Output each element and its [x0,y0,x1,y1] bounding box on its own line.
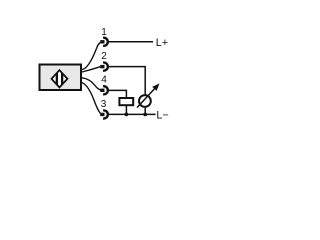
wire load bottom to L- line [125,106,127,115]
svg-text:1: 1 [101,27,107,38]
connector pin 2 [100,63,108,71]
wire lead to pin 4 [82,78,100,90]
meter circle [139,95,151,107]
wire pin1 to L+ [108,41,153,43]
junction dot below meter [143,113,147,117]
junction dot below load [125,113,129,117]
wire pin3 to L- [108,113,156,115]
svg-text:3: 3 [101,99,107,110]
sensor body [40,65,82,91]
connector pin 3 [100,110,108,118]
wire lead to pin 1 [82,43,100,70]
svg-text:L+: L+ [156,37,168,49]
wire lead to pin 2 [82,67,100,72]
wire meter bottom to L- line [144,108,146,115]
wire lead to pin 3 [82,83,100,114]
wire pin4 right then down to load [108,90,126,97]
adjustment arrow head [152,83,159,91]
svg-text:L−: L− [156,109,168,121]
wire pin2 right then down to meter [108,67,145,95]
diamond left bar [56,73,58,85]
svg-text:4: 4 [101,74,107,85]
load resistor [119,98,133,105]
connector pin 4 [100,86,108,94]
diamond right bar [61,73,63,85]
svg-text:2: 2 [101,51,107,62]
adjustment arrow shaft [137,88,155,107]
proximity sensor symbol diamond [52,70,68,87]
connector pin 1 [100,38,108,46]
